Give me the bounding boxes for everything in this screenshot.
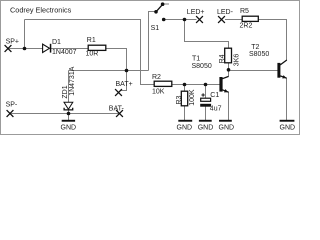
wire R4 bottom stub	[228, 63, 230, 77]
node junction R4/T1 collector	[227, 68, 231, 72]
label C1 plus sign	[201, 93, 204, 96]
node junction ZD1/SP- rail	[67, 112, 71, 116]
terminal X LED-	[218, 16, 225, 23]
svg-text:4u7: 4u7	[210, 106, 222, 113]
svg-text:GND: GND	[219, 124, 235, 131]
terminal X SP+	[5, 45, 12, 52]
svg-text:100K: 100K	[189, 89, 196, 106]
svg-text:10R: 10R	[86, 51, 99, 58]
wire LED- to R5	[225, 19, 242, 21]
svg-text:R1: R1	[87, 37, 96, 44]
wire top rail	[25, 19, 142, 21]
svg-text:R2: R2	[152, 74, 161, 81]
svg-text:T1: T1	[192, 56, 200, 63]
svg-text:GND: GND	[198, 124, 214, 131]
terminal X BAT-	[116, 110, 123, 117]
wire C1 top stub	[205, 85, 207, 99]
wire R5 out to T2 collector	[259, 20, 287, 61]
svg-text:D1: D1	[52, 39, 61, 46]
svg-text:R3: R3	[176, 95, 183, 104]
wire R3 top stub	[184, 85, 186, 92]
wire rail down to R2	[141, 20, 155, 85]
wire mid horizontal	[69, 70, 149, 72]
ground under R3	[178, 120, 192, 122]
svg-text:1N4731A: 1N4731A	[69, 66, 76, 96]
wire left vertical SP+ to top rail	[24, 20, 26, 49]
resistor R4	[225, 48, 232, 63]
wire bottom rail SP- to BAT-	[10, 113, 120, 115]
transistor T2	[277, 60, 286, 79]
wire BAT+ stub	[121, 71, 127, 91]
svg-text:S8050: S8050	[249, 51, 269, 58]
node junction R3 on base wire	[183, 83, 187, 87]
svg-text:SP-: SP-	[6, 101, 18, 108]
node junction rail to R4	[183, 18, 187, 22]
svg-text:S8050: S8050	[192, 63, 212, 70]
wire R1 out to mid junction	[106, 49, 127, 71]
wire D1 to R1	[51, 48, 88, 50]
node junction SP+	[23, 47, 27, 51]
svg-text:LED-: LED-	[217, 9, 234, 16]
wire R3 bottom stub to ground	[184, 106, 186, 120]
svg-text:10K: 10K	[152, 89, 165, 96]
svg-text:Codrey Electronics: Codrey Electronics	[10, 5, 72, 14]
svg-text:GND: GND	[177, 124, 193, 131]
terminal X SP-	[7, 110, 14, 117]
wire S1 vertical	[149, 12, 155, 71]
wire T1 emitter to ground	[228, 92, 230, 120]
node junction D1/R1/BAT+/mid	[125, 69, 129, 73]
transistor T1	[219, 76, 228, 92]
svg-text:LED+: LED+	[187, 9, 205, 16]
wire T1 base from R2	[172, 84, 220, 86]
svg-text:C1: C1	[210, 92, 219, 99]
node junction C1 on base wire	[204, 83, 208, 87]
resistor R1	[88, 45, 106, 50]
svg-text:1N4007: 1N4007	[52, 49, 77, 56]
ground under C1	[199, 120, 212, 122]
svg-text:R5: R5	[240, 8, 249, 15]
wire C1 bottom stub to ground	[205, 107, 207, 120]
svg-text:BAT-: BAT-	[109, 105, 125, 112]
svg-text:2R2: 2R2	[240, 23, 253, 30]
svg-text:3K6: 3K6	[233, 54, 240, 67]
wire S1 throw stub	[164, 3, 169, 5]
switch S1	[154, 2, 165, 21]
terminal X BAT+	[115, 89, 122, 96]
svg-text:BAT+: BAT+	[116, 81, 133, 88]
resistor R5	[242, 16, 258, 21]
wire T2 emitter to ground	[286, 78, 288, 120]
resistor R3	[181, 91, 187, 106]
wire S1 out to LED+	[165, 19, 196, 21]
ground under T2	[280, 120, 295, 122]
border frame	[1, 1, 300, 135]
diode D1	[43, 44, 52, 53]
svg-text:GND: GND	[280, 124, 296, 131]
svg-text:SP+: SP+	[6, 39, 19, 46]
wire ZD1 ground stub	[68, 114, 70, 120]
resistor R2	[154, 81, 172, 86]
capacitor C1	[200, 98, 211, 107]
svg-text:GND: GND	[61, 124, 77, 131]
terminal X LED+	[196, 16, 203, 23]
wire SP+ horizontal	[8, 48, 43, 50]
svg-text:S1: S1	[151, 25, 160, 32]
ground under T1	[219, 120, 232, 122]
svg-text:T2: T2	[251, 44, 259, 51]
ground under ZD1	[62, 120, 75, 122]
svg-text:R4: R4	[219, 54, 226, 63]
zener diode ZD1	[64, 102, 73, 110]
wire ZD1 top stub	[68, 71, 70, 103]
wire ZD1 bottom stub	[68, 110, 70, 114]
wire T2 base	[229, 70, 278, 72]
wire rail junction down to R4	[185, 20, 229, 49]
